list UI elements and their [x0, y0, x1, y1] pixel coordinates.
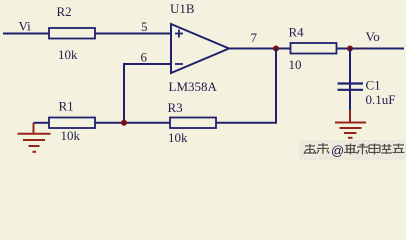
- svg-text:U1B: U1B: [170, 1, 195, 16]
- svg-text:C1: C1: [366, 78, 381, 93]
- resistor R3: [170, 118, 216, 129]
- svg-text:R4: R4: [289, 25, 305, 40]
- svg-text:R1: R1: [59, 99, 74, 114]
- ground (under C1): [335, 110, 366, 138]
- svg-text:0.1uF: 0.1uF: [366, 92, 396, 107]
- junction node A: [121, 120, 127, 126]
- wire feedback down from output: [275, 49, 277, 124]
- op-amp U1B: [171, 24, 229, 73]
- svg-text:Vi: Vi: [19, 19, 32, 34]
- capacitor C1: [338, 84, 364, 90]
- wire Vo node down to C1: [349, 49, 351, 113]
- wire pin 6 horizontal: [124, 63, 171, 65]
- svg-text:6: 6: [141, 50, 148, 65]
- svg-text:7: 7: [251, 30, 258, 45]
- svg-text:10k: 10k: [168, 130, 188, 145]
- svg-text:Vo: Vo: [366, 29, 380, 44]
- ground (left): [18, 123, 51, 152]
- svg-text:5: 5: [141, 19, 148, 34]
- svg-text:R2: R2: [57, 4, 72, 19]
- watermark 头条@硬件电路基础: [299, 140, 406, 160]
- svg-text:R3: R3: [168, 100, 183, 115]
- wire ground to R1: [34, 122, 50, 124]
- resistor R1: [49, 118, 95, 129]
- resistor R2: [49, 28, 95, 39]
- junction at Vo node: [347, 46, 353, 52]
- svg-text:@: @: [331, 143, 344, 158]
- junction at output node: [273, 46, 279, 52]
- svg-text:10k: 10k: [58, 47, 78, 62]
- wire Vi input to R2: [3, 33, 49, 35]
- wire op-amp output to junction: [229, 48, 290, 50]
- svg-text:10: 10: [289, 57, 302, 72]
- wire R4 to Vo: [337, 48, 405, 50]
- wire R2 to op-amp pin 5: [95, 33, 171, 35]
- svg-text:10k: 10k: [61, 128, 81, 143]
- wire R3 to feedback: [216, 122, 277, 124]
- wire feedback vertical: [123, 63, 125, 124]
- wire R1 to node A: [95, 122, 170, 124]
- svg-text:LM358A: LM358A: [169, 79, 218, 94]
- resistor R4: [291, 43, 337, 54]
